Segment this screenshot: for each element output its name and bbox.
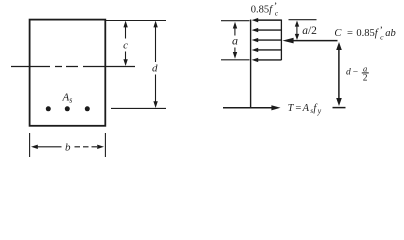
svg-text:c: c	[275, 9, 279, 18]
svg-text:d: d	[152, 62, 158, 74]
svg-text:a/2: a/2	[302, 25, 317, 37]
svg-text:0.85f: 0.85f	[356, 28, 379, 39]
svg-text:0.85f: 0.85f	[251, 4, 274, 15]
svg-text:A: A	[302, 103, 310, 114]
svg-text:d: d	[346, 67, 351, 77]
svg-text:As: As	[62, 91, 73, 104]
svg-text:y: y	[317, 106, 322, 115]
svg-text:T: T	[288, 103, 295, 114]
svg-text:=: =	[295, 103, 301, 114]
svg-text:a: a	[363, 64, 367, 74]
svg-text:=: =	[347, 28, 353, 39]
svg-text:2: 2	[363, 74, 368, 84]
svg-text:c: c	[380, 33, 384, 42]
svg-text:c: c	[123, 40, 128, 52]
svg-text:−: −	[353, 68, 358, 78]
svg-text:b: b	[65, 142, 71, 154]
svg-text:ab: ab	[385, 28, 396, 39]
svg-text:C: C	[334, 28, 342, 39]
svg-text:a: a	[232, 34, 238, 48]
